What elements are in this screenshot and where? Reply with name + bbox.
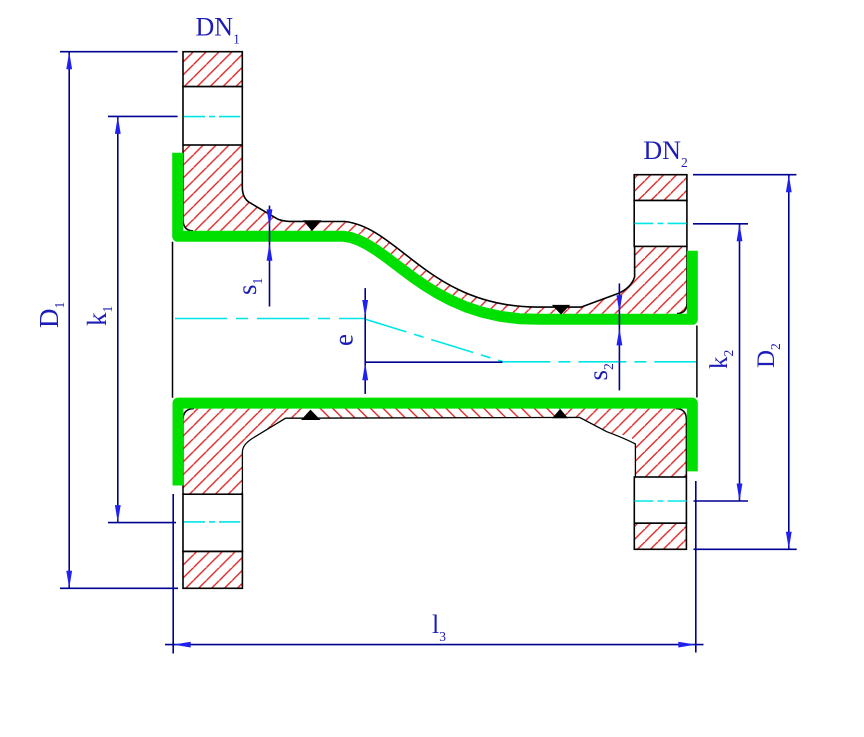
D1 top arrow [66, 52, 72, 69]
cyan centerline left pipe [175, 318, 364, 320]
weld triangle top-left [303, 220, 321, 231]
D2 bottom arrow [786, 532, 792, 550]
s2 down arrow [617, 295, 623, 313]
lower body outline [242, 417, 635, 494]
right flange bottom hatched band [634, 523, 686, 549]
dimension k1 lines [108, 116, 178, 522]
dimension s2 line [618, 283, 620, 390]
left flange bottom hatched band [183, 551, 242, 588]
dimension l3 lines [165, 481, 704, 654]
reducer body lower steel section (hatched) [183, 409, 686, 495]
right flange top hatched band [634, 175, 687, 201]
dimension s1 line [269, 206, 271, 307]
upper-left flange face line [183, 145, 193, 231]
weld triangle bottom-left [301, 410, 321, 420]
k1 top arrow [115, 116, 121, 133]
weld triangle bottom-right [552, 409, 568, 418]
k2 bottom arrow [737, 484, 743, 502]
cyan centerline right pipe [502, 361, 696, 363]
svg-text:e: e [328, 334, 358, 346]
left flange top hatched band [183, 52, 242, 87]
reducer body upper steel section (hatched) [183, 145, 687, 314]
D1 bottom arrow [66, 571, 72, 589]
green lining top [178, 153, 693, 319]
D2 top arrow [786, 175, 792, 193]
upper body outline [242, 145, 634, 307]
upper-right flange face line [677, 246, 687, 313]
e up arrow [362, 363, 368, 381]
dimension e lines [365, 288, 502, 394]
right flange top bolt band [634, 201, 687, 247]
weld triangle top-right [552, 305, 571, 315]
k1 bottom arrow [115, 505, 121, 522]
e down arrow [362, 300, 368, 318]
lower pipe wall band (reverse hatch between welds) [311, 403, 561, 418]
lower-left flange face line [183, 409, 194, 495]
green lining bottom [178, 403, 692, 485]
dimension k2 lines [693, 224, 748, 501]
s1 down arrow [267, 209, 273, 227]
left flange top bolt band [183, 87, 242, 145]
left bore opening edge [172, 242, 174, 398]
cyan bolt-circle line left bottom [184, 521, 243, 523]
lower-right flange face line [676, 409, 686, 477]
cyan bolt-circle line left top [184, 116, 243, 118]
l3 right arrow [678, 642, 696, 648]
cyan bolt-circle line right top [635, 222, 688, 224]
right flange bottom bolt band [634, 477, 686, 523]
s2 up arrow [617, 328, 623, 346]
k2 top arrow [737, 224, 743, 242]
cyan centerline slope [364, 319, 502, 362]
left flange bottom bolt band [183, 494, 242, 551]
s1 up arrow [267, 243, 273, 261]
right bore opening edge [696, 326, 698, 398]
cyan bolt-circle line right bottom [635, 500, 688, 502]
dimension D1 lines [60, 52, 178, 589]
dimension D2 lines [693, 175, 797, 550]
l3 left arrow [173, 642, 191, 648]
